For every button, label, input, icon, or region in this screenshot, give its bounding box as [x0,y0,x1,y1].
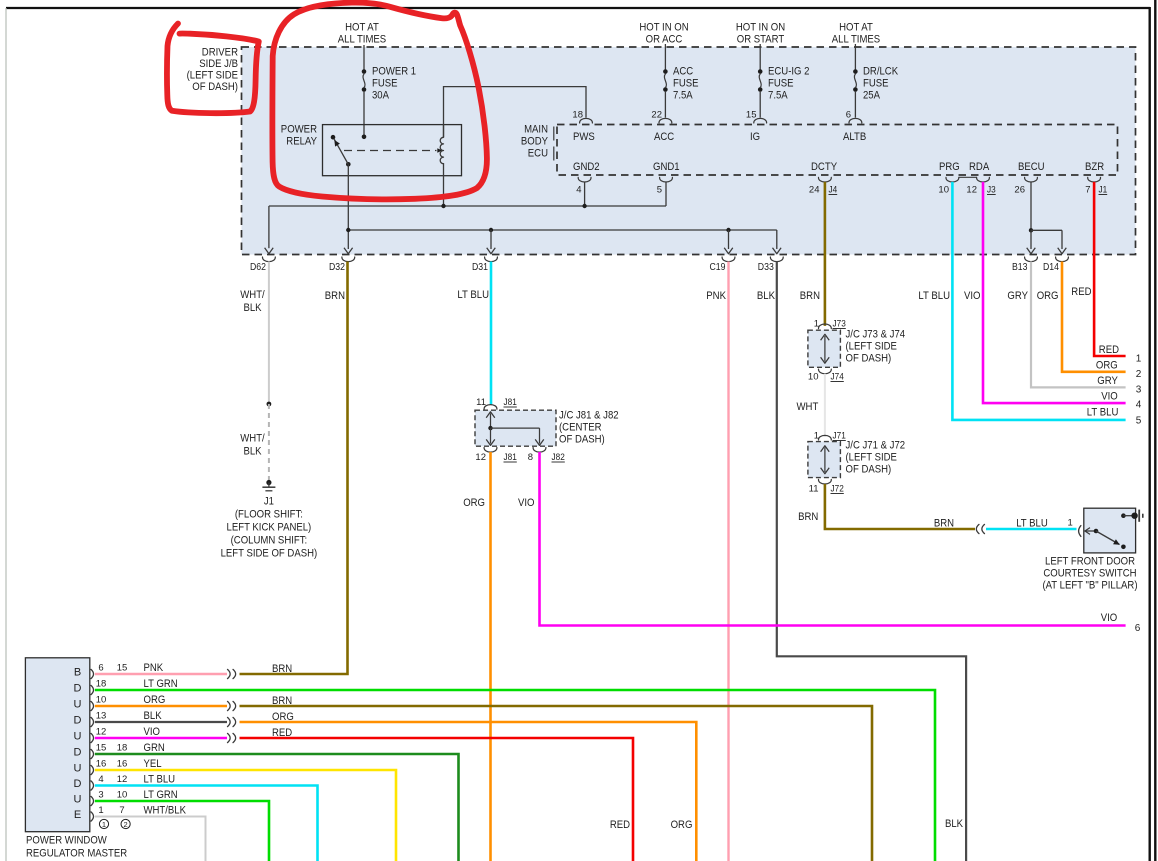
svg-text:D: D [74,747,82,759]
svg-text:J81: J81 [504,397,517,408]
wire ORG row 3 [95,705,227,708]
svg-text:VIO: VIO [1101,391,1118,403]
svg-text:(CENTER: (CENTER [559,422,602,434]
svg-text:LEFT KICK PANEL): LEFT KICK PANEL) [227,522,312,534]
svg-text:J1: J1 [1099,185,1108,196]
svg-text:D32: D32 [329,262,345,273]
svg-text:RED: RED [1071,286,1091,298]
svg-text:(LEFT SIDE: (LEFT SIDE [187,70,238,82]
svg-text:ORG: ORG [1096,360,1118,372]
svg-text:RELAY: RELAY [286,136,317,148]
pin 5 GND1 [660,177,673,182]
svg-text:J1: J1 [264,496,274,508]
connector D14 exit arrow [1058,248,1067,254]
svg-text:U: U [74,763,82,775]
svg-text:BRN: BRN [934,518,954,530]
svg-text:OF DASH): OF DASH) [192,81,238,93]
relay contact dots [331,135,336,140]
svg-text:DCTY: DCTY [811,161,838,173]
svg-text:VIO: VIO [1101,612,1118,624]
svg-text:GRY: GRY [1007,290,1028,302]
J73/J74 internal arrow [824,336,826,362]
wire WHT/BLK from D62 [268,262,270,405]
svg-text:D: D [74,715,82,727]
svg-text:D33: D33 [758,262,774,273]
svg-text:J/C J81 & J82: J/C J81 & J82 [559,410,619,422]
svg-text:LEFT FRONT DOOR: LEFT FRONT DOOR [1045,556,1135,568]
wire fuse POWER 1 to relay [363,91,365,137]
svg-text:BODY: BODY [521,136,549,148]
red annotation circle around POWER RELAY [272,3,487,200]
svg-text:POWER WINDOW: POWER WINDOW [26,835,107,847]
junction connector J73/J74 box [808,330,841,367]
pin 24 DCTY J4 [818,177,831,182]
svg-text:ECU-IG 2: ECU-IG 2 [768,66,810,78]
svg-text:LT BLU: LT BLU [457,289,489,301]
pin 8 J82 [533,448,546,453]
wire BLK row 4 [95,721,227,723]
J81 internal wiring [490,413,492,428]
svg-text:D: D [74,683,82,695]
svg-text:OR START: OR START [737,34,785,46]
svg-text:24: 24 [809,185,820,196]
wire VIO row 5 [95,737,227,740]
svg-text:10: 10 [96,695,107,706]
inline connector ORG/BRN row 3 [228,701,231,710]
svg-text:10: 10 [117,790,128,801]
svg-text:3: 3 [1136,384,1142,395]
wire GRN row 6 [95,754,459,861]
svg-text:10: 10 [938,185,949,196]
wire LT GRN row 9 [95,801,269,861]
svg-text:HOT IN ON: HOT IN ON [736,22,785,34]
wire LT GRN row 2 [95,690,935,861]
relay box POWER RELAY [323,125,462,176]
svg-text:ALL TIMES: ALL TIMES [338,34,386,46]
svg-text:5: 5 [657,185,662,196]
svg-text:POWER 1: POWER 1 [372,66,416,78]
svg-text:HOT IN ON: HOT IN ON [639,22,688,34]
wire BECU to B13 D14 branch [1030,182,1032,230]
svg-text:LT GRN: LT GRN [144,678,178,690]
wire PNK from C19 [727,262,729,861]
svg-text:(FLOOR SHIFT:: (FLOOR SHIFT: [235,509,303,521]
wire RED from BZR [1094,182,1126,356]
master switch pin arcs [91,669,94,678]
svg-text:OF DASH): OF DASH) [559,434,605,446]
svg-text:WHT/: WHT/ [240,289,265,301]
svg-text:VIO: VIO [964,290,981,302]
svg-text:SIDE J/B: SIDE J/B [199,58,238,70]
svg-text:U: U [74,794,82,806]
pin 4 GND2 [578,177,591,182]
svg-text:PNK: PNK [706,290,726,302]
svg-text:7.5A: 7.5A [768,90,788,102]
svg-text:4: 4 [98,774,103,785]
pin 10 PRG [946,177,959,182]
pin 11 J72 [818,479,831,484]
wire relay coil to PWS pin 18 [444,87,587,138]
svg-text:1: 1 [1068,518,1073,529]
svg-text:10: 10 [808,372,819,383]
connector D32 exit arrow [344,248,353,254]
wire VIO from RDA [983,182,1126,403]
wire RED row 5 [240,738,634,861]
main body ECU label bracket [553,127,555,141]
svg-text:GND1: GND1 [653,161,680,173]
svg-text:7: 7 [1085,185,1090,196]
fuse DR/LCK 25A [854,44,856,72]
svg-text:GND2: GND2 [573,161,600,173]
svg-text:VIO: VIO [144,726,161,738]
svg-text:16: 16 [96,759,107,770]
svg-text:J73: J73 [833,319,846,330]
wire YEL row 7 [95,770,396,861]
svg-text:WHT/: WHT/ [240,433,265,445]
svg-text:FUSE: FUSE [372,78,398,90]
svg-text:BLK: BLK [243,446,262,458]
wire LT BLU from PRG [952,182,1125,420]
wire GND2 GND1 to D62 [584,182,586,206]
svg-text:15: 15 [96,743,107,754]
svg-text:ORG: ORG [463,497,485,509]
circled terminal numbers 1 2 [99,819,108,828]
wire WHT/BLK row 10 [95,817,206,861]
svg-text:(LEFT SIDE: (LEFT SIDE [846,452,897,464]
svg-text:8: 8 [528,452,533,463]
svg-text:DR/LCK: DR/LCK [863,66,899,78]
svg-text:YEL: YEL [144,758,162,770]
svg-text:OR ACC: OR ACC [646,34,683,46]
wire LT BLU to courtesy switch [986,528,1077,531]
svg-text:ECU: ECU [528,148,548,160]
connector D33 exit arrow [773,248,782,254]
junction connector J71/J72 box [808,442,841,478]
svg-text:POWER: POWER [281,124,317,136]
svg-text:FUSE: FUSE [673,78,699,90]
svg-text:J81: J81 [504,452,517,463]
main body ECU box [557,125,1118,176]
inline connector VIO/RED row 5 [228,733,231,742]
svg-text:(AT LEFT "B" PILLAR): (AT LEFT "B" PILLAR) [1042,580,1137,592]
svg-text:11: 11 [809,484,819,495]
fuse POWER 1 30A [363,45,365,72]
svg-text:LT BLU: LT BLU [1016,518,1048,530]
svg-text:LT BLU: LT BLU [144,774,176,786]
svg-text:D31: D31 [472,262,488,273]
svg-text:HOT AT: HOT AT [345,22,379,34]
border frame top line [6,7,1150,9]
relay coil [443,125,445,138]
wire LT BLU from D31 to J81 [490,262,493,405]
svg-text:OF DASH): OF DASH) [846,353,892,365]
svg-text:BLK: BLK [757,290,776,302]
wire PNK row 1 [95,673,227,675]
svg-text:ACC: ACC [673,66,693,78]
svg-text:18: 18 [572,110,583,121]
svg-text:BRN: BRN [800,290,820,302]
svg-text:7: 7 [119,805,124,816]
svg-text:1: 1 [102,820,106,829]
svg-text:(COLUMN SHIFT:: (COLUMN SHIFT: [231,535,308,547]
svg-text:LT GRN: LT GRN [144,789,178,801]
svg-text:FUSE: FUSE [863,78,889,90]
svg-text:4: 4 [1136,400,1142,411]
svg-text:B: B [74,667,81,679]
svg-text:FUSE: FUSE [768,78,794,90]
svg-text:U: U [74,731,82,743]
svg-text:LEFT SIDE OF DASH): LEFT SIDE OF DASH) [221,548,318,560]
svg-text:18: 18 [96,679,107,690]
svg-text:WHT: WHT [797,401,819,413]
connector C19 exit arrow [724,248,733,254]
svg-text:J4: J4 [829,185,838,196]
svg-text:OF DASH): OF DASH) [846,464,892,476]
svg-text:J/C J71 & J72: J/C J71 & J72 [846,440,906,452]
svg-text:2: 2 [124,820,128,829]
svg-text:DRIVER: DRIVER [202,47,238,59]
svg-text:D14: D14 [1043,262,1059,273]
relay linkage dashed line [344,150,437,152]
fuse ACC 7.5A [664,44,666,72]
svg-text:D: D [74,778,82,790]
svg-text:VIO: VIO [518,497,535,509]
svg-text:ACC: ACC [654,131,674,143]
wire BRN from D32 [240,262,348,675]
svg-text:RED: RED [610,819,630,831]
svg-text:LT BLU: LT BLU [918,290,950,302]
svg-text:C19: C19 [710,262,726,273]
wire LT BLU row 8 [95,786,318,861]
fuse ECU-IG 2 7.5A [759,44,761,72]
svg-text:U: U [74,699,82,711]
svg-text:15: 15 [117,663,128,674]
border frame left line [5,8,7,861]
courtesy switch contact to ground [1121,513,1126,518]
svg-text:D62: D62 [250,262,266,273]
svg-text:ORG: ORG [1037,290,1059,302]
svg-text:MAIN: MAIN [524,124,548,136]
svg-text:1: 1 [1136,353,1142,364]
svg-text:3: 3 [98,790,103,801]
svg-text:PRG: PRG [939,161,960,173]
wire BLK from D33 [777,262,966,861]
svg-text:12: 12 [475,452,486,463]
pin 7 BZR J1 [1088,177,1101,182]
wire BRN from DCTY to J73 [824,182,827,326]
wire WHT J74 to J71 [824,374,826,437]
relay switch arm [334,139,348,164]
connector B13 exit arrow [1027,248,1036,254]
svg-text:12: 12 [96,727,107,738]
svg-text:30A: 30A [372,90,390,102]
red annotation circle around DRIVER SIDE J/B label [167,24,259,114]
svg-text:5: 5 [1136,415,1142,426]
svg-text:PWS: PWS [573,131,595,143]
wire GRY from B13 [1031,262,1126,388]
svg-text:ORG: ORG [144,694,166,706]
svg-text:18: 18 [117,743,128,754]
svg-text:LT BLU: LT BLU [1087,407,1119,419]
svg-text:HOT AT: HOT AT [839,22,873,34]
svg-text:BRN: BRN [798,511,818,523]
svg-text:RDA: RDA [969,161,990,173]
pin 12 RDA J3 [977,177,990,182]
svg-text:6: 6 [846,110,851,121]
svg-text:BLK: BLK [144,710,163,722]
svg-text:7.5A: 7.5A [673,90,693,102]
wire ORG from J81 [489,452,492,861]
power window regulator master switch box [25,658,89,832]
svg-text:PNK: PNK [144,662,164,674]
svg-text:12: 12 [966,185,977,196]
wire relay coil to ground bus [443,163,445,206]
svg-text:J/C J73 & J74: J/C J73 & J74 [846,329,906,341]
svg-text:ORG: ORG [671,819,693,831]
svg-text:6: 6 [1135,623,1141,634]
svg-text:J3: J3 [987,185,996,196]
pin 12 J81 [484,448,497,453]
svg-text:COURTESY SWITCH: COURTESY SWITCH [1043,568,1136,580]
svg-text:1: 1 [98,805,103,816]
wire relay output bus [347,164,349,249]
wire VIO from J82 to right edge 6 [540,452,1126,626]
pin 26 BECU [1025,177,1038,182]
svg-text:12: 12 [117,774,128,785]
svg-text:25A: 25A [863,90,881,102]
inline connector BRN/LT BLU [976,524,979,533]
wire BRN row 3 [240,706,873,861]
svg-text:(LEFT SIDE: (LEFT SIDE [846,341,897,353]
wire ORG from D14 [1062,262,1126,372]
svg-text:26: 26 [1014,185,1025,196]
svg-text:J82: J82 [552,452,565,463]
svg-text:BZR: BZR [1085,161,1104,173]
svg-text:BLK: BLK [243,302,262,314]
ground J1 [266,480,271,485]
wire BRN from J72 to courtesy switch [825,484,975,529]
svg-text:22: 22 [651,110,662,121]
svg-text:IG: IG [750,131,760,143]
connector J3 tie line [959,176,977,178]
svg-text:J74: J74 [831,372,844,383]
svg-text:WHT/BLK: WHT/BLK [144,805,187,817]
svg-text:GRY: GRY [1097,375,1118,387]
J71/J72 internal arrow [824,447,826,472]
svg-text:BRN: BRN [325,290,345,302]
svg-text:ALTB: ALTB [843,131,866,143]
svg-text:15: 15 [746,110,757,121]
border frame right double line [1148,7,1150,861]
svg-text:GRN: GRN [144,742,165,754]
left front door courtesy switch box [1084,508,1136,553]
connector D62 exit arrow [265,248,274,254]
svg-text:4: 4 [576,185,581,196]
svg-text:BECU: BECU [1018,161,1045,173]
pin 10 J74 [818,369,831,374]
svg-text:RED: RED [1099,344,1119,356]
courtesy switch arm [1085,528,1090,535]
svg-text:REGULATOR MASTER: REGULATOR MASTER [26,848,127,860]
svg-text:E: E [74,809,81,821]
svg-text:J71: J71 [833,431,846,442]
wire ORG row 4 [240,722,697,861]
svg-text:2: 2 [1136,369,1142,380]
inline connector PNK/BRN row 1 [228,669,231,678]
svg-text:13: 13 [96,711,107,722]
connector D31 exit arrow [487,248,496,254]
svg-text:B13: B13 [1012,262,1028,273]
svg-text:ALL TIMES: ALL TIMES [832,34,880,46]
svg-text:16: 16 [117,759,128,770]
driver side J/B junction block box [242,47,1136,255]
inline connector BLK/ORG row 4 [228,717,231,726]
svg-text:BRN: BRN [272,663,292,675]
svg-text:BLK: BLK [945,818,964,830]
svg-text:6: 6 [98,663,103,674]
junction connector J81/J82 box [475,410,556,446]
svg-text:J72: J72 [831,484,844,495]
